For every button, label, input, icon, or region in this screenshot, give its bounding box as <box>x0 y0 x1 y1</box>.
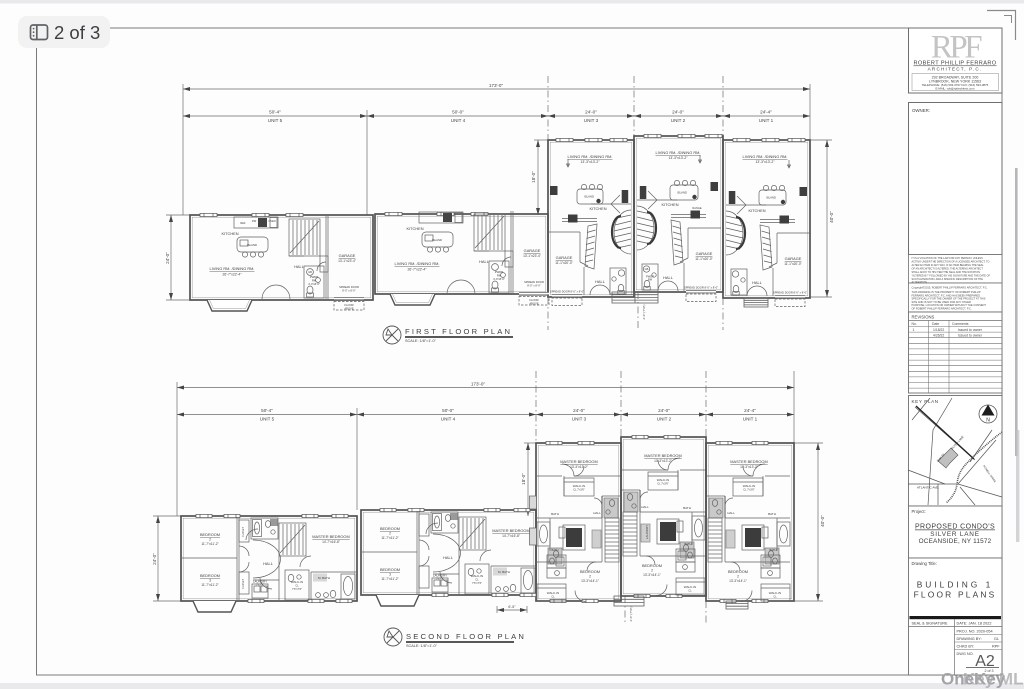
svg-text:WALK-IN: WALK-IN <box>657 478 669 482</box>
corner crop mark inner top-right <box>1004 16 1012 24</box>
svg-text:GARAGE: GARAGE <box>696 251 713 256</box>
svg-text:3: 3 <box>389 573 391 577</box>
svg-text:MASTER BEDROOM: MASTER BEDROOM <box>644 453 681 458</box>
svg-text:UNIT 5: UNIT 5 <box>268 118 283 123</box>
svg-text:11'-7"x11'-2": 11'-7"x11'-2" <box>381 536 398 540</box>
svg-text:ABOVE: ABOVE <box>529 302 538 306</box>
svg-text:4'-0"x8'-6": 4'-0"x8'-6" <box>308 282 320 286</box>
overall dim line 173'-0" <box>183 88 810 90</box>
svg-text:BEDROOM: BEDROOM <box>728 569 748 574</box>
key plan building footprint <box>938 448 958 468</box>
svg-text:M. BATH: M. BATH <box>318 576 330 580</box>
svg-text:8'-0" x 8'-0": 8'-0" x 8'-0" <box>342 289 356 293</box>
svg-text:MASTER BEDROOM: MASTER BEDROOM <box>492 528 529 533</box>
bath top-center <box>251 518 278 539</box>
left vertical dim 24'-0" second floor <box>153 516 181 601</box>
svg-text:GB: GB <box>308 270 312 274</box>
left vertical dim 24'-0" first floor <box>166 215 190 300</box>
unit 3 island <box>577 184 603 204</box>
svg-text:11'-7"x11'-2": 11'-7"x11'-2" <box>201 583 218 587</box>
svg-text:24'-0": 24'-0" <box>165 252 170 264</box>
title block: copyright note <box>909 283 1003 312</box>
svg-text:UNIT 5: UNIT 5 <box>260 417 275 422</box>
master bedroom wall <box>622 469 668 471</box>
svg-text:FLOOR PLANS: FLOOR PLANS <box>914 590 997 600</box>
svg-text:KEY PLAN: KEY PLAN <box>912 399 939 404</box>
garage wall <box>325 216 327 299</box>
svg-text:CLOSET: CLOSET <box>242 527 245 537</box>
svg-text:HALL: HALL <box>443 555 454 560</box>
svg-text:SPREAD DOOR 8'-0" x 8'-0": SPREAD DOOR 8'-0" x 8'-0" <box>773 291 807 295</box>
svg-text:RM: RM <box>312 279 317 283</box>
svg-text:14'-7"x16'-8": 14'-7"x16'-8" <box>322 540 340 544</box>
garage door opening <box>686 290 716 293</box>
svg-text:SEAL & SIGNATURE: SEAL & SIGNATURE <box>912 622 949 626</box>
svg-text:7'x7'7": 7'x7'7" <box>256 583 264 587</box>
unit 1 labels <box>743 154 808 295</box>
svg-text:26'-7"x22'-4": 26'-7"x22'-4" <box>408 268 428 272</box>
svg-text:3: 3 <box>209 579 211 583</box>
key plan main road thick <box>916 406 974 459</box>
floor above dashed apron <box>334 302 364 311</box>
svg-text:13'-3"x13'-2": 13'-3"x13'-2" <box>654 459 672 463</box>
sheet border bottom <box>36 674 1002 676</box>
interior door arc <box>317 262 326 271</box>
watermark OneKey MLS <box>941 670 1024 689</box>
svg-text:CL: CL <box>551 595 555 599</box>
svg-text:13'-3"x13'-2": 13'-3"x13'-2" <box>740 465 758 469</box>
svg-text:40'-0": 40'-0" <box>820 515 825 527</box>
bath middle <box>285 570 309 600</box>
svg-text:24'-4": 24'-4" <box>744 408 756 413</box>
svg-text:ISLAND: ISLAND <box>677 191 687 195</box>
svg-text:13'-3"x13'-2": 13'-3"x13'-2" <box>756 160 776 164</box>
svg-text:WALK-IN: WALK-IN <box>769 591 781 595</box>
svg-text:RANGE: RANGE <box>692 206 701 210</box>
svg-text:GL: GL <box>994 637 999 641</box>
svg-text:LAUNDRY: LAUNDRY <box>645 525 649 539</box>
svg-text:13'-1"x23'-4": 13'-1"x23'-4" <box>523 254 541 258</box>
dim labels first floor <box>268 83 774 123</box>
svg-text:BEDROOM: BEDROOM <box>380 567 400 572</box>
right vertical dim 40'-0" second floor <box>794 443 823 601</box>
svg-text:13'-3"x14'-1": 13'-3"x14'-1" <box>643 573 661 577</box>
svg-text:SECOND FLOOR PLAN: SECOND FLOOR PLAN <box>406 632 526 641</box>
svg-text:2 of 3: 2 of 3 <box>54 22 100 43</box>
svg-text:ISLAND: ISLAND <box>766 196 776 200</box>
photo top edge strip <box>0 0 1024 4</box>
unit 3 2F labels <box>547 459 601 599</box>
second floor porches <box>614 596 748 609</box>
svg-text:173'-0": 173'-0" <box>471 382 486 387</box>
svg-text:RPF: RPF <box>992 645 1000 649</box>
svg-text:HALL: HALL <box>593 511 601 515</box>
svg-text:LIVING RM. /DINING RM.: LIVING RM. /DINING RM. <box>395 261 440 266</box>
svg-text:KITCHEN: KITCHEN <box>748 208 765 213</box>
svg-text:HALL: HALL <box>263 561 274 566</box>
thick separator bar <box>910 616 1002 619</box>
long unit separation dash lines first floor <box>548 76 723 330</box>
6'-5" dim below unit 4 <box>497 606 527 613</box>
svg-text:Project:: Project: <box>912 509 926 514</box>
svg-text:4'-0"x8'-6": 4'-0"x8'-6" <box>493 277 505 281</box>
svg-text:50'-4": 50'-4" <box>269 110 281 115</box>
svg-text:UNIT 1: UNIT 1 <box>759 118 774 123</box>
island unit5 <box>237 237 268 252</box>
unit 3 2F mirrored <box>537 464 620 602</box>
extension verticals <box>182 84 184 215</box>
master bath right-bottom <box>311 571 356 573</box>
stair left <box>623 512 637 556</box>
kitchen counter + range <box>671 217 706 219</box>
svg-text:11'-1"x20'-0": 11'-1"x20'-0" <box>695 257 713 261</box>
svg-text:OCEANSIDE, NY 11572: OCEANSIDE, NY 11572 <box>919 538 992 545</box>
unit 5 2F bay window <box>193 601 236 612</box>
svg-text:WALK-IN: WALK-IN <box>684 585 696 589</box>
svg-text:14'-7"x16'-8": 14'-7"x16'-8" <box>502 534 520 538</box>
svg-text:GB: GB <box>645 267 649 271</box>
svg-text:SPREAD DOOR: SPREAD DOOR <box>339 285 359 289</box>
svg-text:UNIT 3: UNIT 3 <box>584 118 599 123</box>
svg-text:6'-5": 6'-5" <box>508 605 516 609</box>
photo bottom edge strip <box>0 683 1024 689</box>
svg-text:11'-7"x11'-2": 11'-7"x11'-2" <box>201 542 218 546</box>
svg-text:LIVING RM. /DINING RM.: LIVING RM. /DINING RM. <box>656 150 701 155</box>
svg-text:WALK-IN: WALK-IN <box>573 484 585 488</box>
sheet border top <box>109 27 1002 29</box>
svg-text:18'-0": 18'-0" <box>521 473 526 485</box>
svg-text:1: 1 <box>913 328 915 332</box>
unit 5 outer wall <box>190 215 373 300</box>
unit 2 2F interior geometry <box>622 458 705 596</box>
unit 4 2F labels <box>380 526 530 585</box>
svg-text:REVISIONS: REVISIONS <box>912 315 935 320</box>
svg-text:2'-0" (TYP.): 2'-0" (TYP.) <box>642 304 646 319</box>
key plan roads <box>908 398 1002 505</box>
unit 3 2F left wall fixtures <box>530 496 537 545</box>
unit 4 2F outer wall <box>361 510 536 595</box>
svg-text:GARAGE: GARAGE <box>524 248 541 253</box>
svg-text:HALL: HALL <box>752 280 763 285</box>
svg-text:Key MLS: Key MLS <box>963 670 1024 689</box>
svg-text:BATH: BATH <box>552 548 559 552</box>
photo count chip <box>18 16 110 48</box>
title block: drawing title box <box>909 558 1003 675</box>
svg-text:4/26/22: 4/26/22 <box>933 334 944 338</box>
unit 4 outer wall <box>375 214 548 294</box>
svg-text:ISLAND: ISLAND <box>584 195 594 199</box>
svg-text:50'-0": 50'-0" <box>452 110 464 115</box>
closet parallelogram <box>671 220 683 265</box>
svg-text:2'-0" (TYP.): 2'-0" (TYP.) <box>629 606 633 621</box>
svg-text:BATH: BATH <box>685 542 692 546</box>
svg-text:18'-0": 18'-0" <box>531 171 536 183</box>
svg-text:Issued to owner: Issued to owner <box>958 334 983 338</box>
unit 2 2F outer wall <box>621 437 706 596</box>
svg-text:HALL: HALL <box>727 511 735 515</box>
svg-text:FLOOR: FLOOR <box>344 303 353 307</box>
svg-text:WALK-IN: WALK-IN <box>291 580 303 584</box>
unit 2 island <box>670 180 698 200</box>
middle band walls <box>639 490 641 556</box>
svg-text:2: 2 <box>589 575 591 579</box>
svg-text:M. BATH: M. BATH <box>498 570 510 574</box>
stair <box>279 523 306 556</box>
svg-text:GARAGE: GARAGE <box>556 255 573 260</box>
svg-text:HALL: HALL <box>663 275 674 280</box>
title block: violation note <box>909 255 1003 285</box>
extra interior walls <box>677 470 679 490</box>
svg-text:BATH: BATH <box>768 512 776 516</box>
title block: architect logo box <box>909 28 1003 93</box>
svg-text:2: 2 <box>651 569 653 573</box>
svg-text:WALK-IN: WALK-IN <box>471 574 483 578</box>
svg-text:SILVER LANE: SILVER LANE <box>930 531 980 538</box>
svg-text:BEDROOM: BEDROOM <box>380 526 400 531</box>
svg-text:Issued to owner: Issued to owner <box>958 328 983 332</box>
svg-text:24'-0": 24'-0" <box>573 408 585 413</box>
svg-text:MASTER BEDROOM: MASTER BEDROOM <box>312 534 349 539</box>
svg-text:WALK-IN: WALK-IN <box>547 591 559 595</box>
key plan compass <box>979 405 997 423</box>
svg-text:DATE: JAN. 18 2022: DATE: JAN. 18 2022 <box>957 622 992 626</box>
svg-text:UNIT 1: UNIT 1 <box>743 417 758 422</box>
bottom band walls <box>640 555 705 557</box>
svg-text:Copyright©2015, ROBERT PHILLIP: Copyright©2015, ROBERT PHILLIP FERRARO A… <box>912 286 988 290</box>
kitchen counter unit5 <box>234 217 278 228</box>
second floor window marks <box>196 435 768 602</box>
right vertical dim 40'-0" first floor <box>810 140 832 297</box>
unit 5 bay window <box>207 300 252 311</box>
tub shower + bath bottom <box>676 549 695 562</box>
svg-text:SPREAD DOOR 8'-0" x 8'-0": SPREAD DOOR 8'-0" x 8'-0" <box>550 290 584 294</box>
svg-text:CL 7'x3'6": CL 7'x3'6" <box>657 482 669 486</box>
svg-text:2: 2 <box>389 532 391 536</box>
unit 5 2F labels <box>200 527 350 591</box>
svg-text:7'6"x7'6": 7'6"x7'6" <box>472 581 482 585</box>
svg-text:SCALE: 1/8"=1'-0": SCALE: 1/8"=1'-0" <box>406 644 438 648</box>
unit 2 labels <box>645 150 718 290</box>
garage walls <box>687 228 689 258</box>
door arcs <box>646 556 655 565</box>
vestibule arcs <box>239 546 249 556</box>
bedroom dividing walls <box>236 517 238 600</box>
svg-text:Drawing Title:: Drawing Title: <box>912 561 937 566</box>
svg-text:OVEN: OVEN <box>268 219 275 223</box>
svg-text:PROPOSED CONDO'S: PROPOSED CONDO'S <box>915 524 995 531</box>
unit 1 island <box>759 185 786 205</box>
svg-text:ARCHITECT, P.C.: ARCHITECT, P.C. <box>928 67 983 72</box>
unit 5 2F outer wall <box>181 516 357 601</box>
corner crop mark outer top-right <box>987 11 1016 41</box>
svg-text:GARAGE: GARAGE <box>339 253 356 258</box>
svg-text:E-MAIL: rob@rpfarchitect.com: E-MAIL: rob@rpfarchitect.com <box>936 87 976 91</box>
svg-text:No.: No. <box>912 322 917 326</box>
svg-text:13'-3"x14'-1": 13'-3"x14'-1" <box>729 579 747 583</box>
svg-text:40'-0": 40'-0" <box>829 211 834 223</box>
svg-text:CL: CL <box>295 584 299 588</box>
svg-text:1/18/22: 1/18/22 <box>933 328 944 332</box>
svg-text:PROJ. NO. 2020-054: PROJ. NO. 2020-054 <box>957 630 993 634</box>
bath tile left <box>624 492 638 512</box>
svg-text:2: 2 <box>209 538 211 542</box>
svg-text:KITCHEN: KITCHEN <box>661 202 678 207</box>
svg-text:OF ROBERT PHILLIP FERRARO ARCH: OF ROBERT PHILLIP FERRARO ARCHITECT, P.C… <box>912 307 972 311</box>
svg-text:OWNER:: OWNER: <box>912 108 930 113</box>
svg-text:LIVING RM. /DINING RM.: LIVING RM. /DINING RM. <box>568 154 613 159</box>
svg-text:DWG NO.: DWG NO. <box>957 652 974 656</box>
svg-text:BUILDING 1: BUILDING 1 <box>917 580 994 590</box>
svg-text:BATH: BATH <box>683 506 691 510</box>
svg-text:Date: Date <box>932 322 939 326</box>
walk-in closet <box>648 472 678 490</box>
svg-text:Comments: Comments <box>952 322 969 326</box>
unit 3 labels <box>550 154 613 294</box>
svg-text:CL 7'x3'6": CL 7'x3'6" <box>743 488 755 492</box>
key plan creek hatched <box>946 432 1002 503</box>
svg-text:13'-3"x13'-2": 13'-3"x13'-2" <box>570 465 588 469</box>
closets <box>239 520 249 542</box>
svg-text:CL: CL <box>475 578 479 582</box>
svg-text:50'-0": 50'-0" <box>442 408 454 413</box>
unit dim line <box>183 115 810 117</box>
svg-text:WALK-IN: WALK-IN <box>743 484 755 488</box>
unit 1 outer wall <box>723 140 810 298</box>
svg-text:HALL: HALL <box>479 259 490 264</box>
svg-text:BEDROOM: BEDROOM <box>642 563 662 568</box>
svg-text:HALL: HALL <box>595 279 606 284</box>
svg-text:GARAGE: GARAGE <box>785 256 802 261</box>
svg-text:ISLAND: ISLAND <box>432 238 442 242</box>
unit 1 2F reuse <box>707 464 790 602</box>
svg-text:FIRST FLOOR PLAN: FIRST FLOOR PLAN <box>405 327 512 336</box>
svg-text:24'-0": 24'-0" <box>585 110 597 115</box>
master door arc <box>300 556 311 567</box>
svg-text:CLOSET: CLOSET <box>242 579 245 589</box>
unit 3 2F outer wall <box>536 443 621 601</box>
svg-text:SCALE: 1/8"=1'-0": SCALE: 1/8"=1'-0" <box>405 339 437 343</box>
svg-text:N: N <box>986 418 990 424</box>
svg-text:SPREAD DOOR 8'-0" x 8'-0": SPREAD DOOR 8'-0" x 8'-0" <box>684 286 718 290</box>
svg-text:8'-0" x 8'-0": 8'-0" x 8'-0" <box>527 284 541 288</box>
first floor porches <box>612 292 768 307</box>
plan titles <box>383 326 513 344</box>
svg-text:ABOVE: ABOVE <box>344 307 353 311</box>
svg-text:13'-3"x14'-1": 13'-3"x14'-1" <box>581 579 599 583</box>
svg-text:2: 2 <box>737 575 739 579</box>
sheet border left <box>36 46 38 675</box>
powder room unit5 <box>304 266 324 298</box>
unit 1 2F outer wall <box>706 443 794 601</box>
svg-text:13'-1"x23'-4": 13'-1"x23'-4" <box>338 259 356 263</box>
svg-text:KITCHEN: KITCHEN <box>406 226 423 231</box>
svg-text:11'-1"x20'-0": 11'-1"x20'-0" <box>784 262 802 266</box>
svg-text:ISLAND: ISLAND <box>247 243 257 247</box>
dim arrows first floor <box>183 87 810 118</box>
unit 2 interior geometry <box>637 155 721 302</box>
svg-text:DRAWING BY:: DRAWING BY: <box>957 637 982 641</box>
svg-text:SPREAD DOOR: SPREAD DOOR <box>524 280 544 284</box>
tub right <box>692 516 705 540</box>
unit 3 interior mirrored <box>547 159 631 306</box>
curved stair <box>637 206 654 250</box>
svg-text:11'-7"x11'-2": 11'-7"x11'-2" <box>381 577 398 581</box>
unit 1 interior reuse <box>726 160 810 307</box>
svg-text:RM: RM <box>648 278 652 282</box>
title block: project box <box>909 506 1003 558</box>
shaft dark <box>660 522 676 541</box>
svg-text:24'-0": 24'-0" <box>672 110 684 115</box>
svg-text:UNIT 2: UNIT 2 <box>657 417 672 422</box>
title block: key plan <box>908 396 1002 507</box>
title block: revisions table <box>909 312 1003 393</box>
svg-text:FLOOR: FLOOR <box>529 298 538 302</box>
svg-text:50'-4": 50'-4" <box>261 408 273 413</box>
svg-text:RM: RM <box>497 274 502 278</box>
unit 2 outer wall <box>634 136 723 292</box>
laundry <box>252 584 268 598</box>
sheet border right <box>1001 28 1003 675</box>
svg-text:HALL: HALL <box>294 264 305 269</box>
unit 4 bay window <box>390 294 435 305</box>
svg-text:KITCHEN: KITCHEN <box>221 231 238 236</box>
svg-text:UNIT 4: UNIT 4 <box>451 118 466 123</box>
svg-text:24'-0": 24'-0" <box>658 408 670 413</box>
svg-text:UNIT 4: UNIT 4 <box>441 417 456 422</box>
svg-text:CL 7'x3'6": CL 7'x3'6" <box>573 488 585 492</box>
step vertical dim 18'-0" first floor <box>534 140 548 215</box>
svg-text:LIVING RM. /DINING RM.: LIVING RM. /DINING RM. <box>743 154 788 159</box>
unit 4 2F interior reuse <box>362 511 536 594</box>
right edge gray bar <box>1015 168 1018 456</box>
svg-text:BEDROOM: BEDROOM <box>200 573 220 578</box>
svg-text:KITCHEN: KITCHEN <box>589 206 606 211</box>
svg-text:CL: CL <box>773 595 777 599</box>
arrows <box>699 155 702 163</box>
svg-text:MASTER BEDROOM: MASTER BEDROOM <box>730 459 767 464</box>
unit 5 labels <box>210 219 359 311</box>
front door arcs <box>658 281 668 291</box>
stair unit5 <box>289 219 320 256</box>
unit 4 2F bay window <box>376 595 419 606</box>
step vertical dim 18'-0" second floor <box>524 443 536 516</box>
hall closet unit5 <box>320 256 328 272</box>
unit 4 interior reuse <box>419 211 549 305</box>
svg-text:CHKD BY:: CHKD BY: <box>957 645 975 649</box>
unit 4 labels <box>395 226 544 306</box>
svg-text:UNIT 3: UNIT 3 <box>572 417 587 422</box>
svg-text:24'-0": 24'-0" <box>152 553 157 565</box>
svg-text:ATLANTIC AVE.: ATLANTIC AVE. <box>917 486 939 490</box>
garage door opening unit5 <box>334 297 364 299</box>
first floor window marks <box>200 134 805 216</box>
svg-text:7'6"x7'6": 7'6"x7'6" <box>292 587 302 591</box>
front door arcs unit5 <box>262 285 276 299</box>
svg-text:LIVING RM. /DINING RM.: LIVING RM. /DINING RM. <box>210 266 255 271</box>
svg-text:7'x7'7": 7'x7'7" <box>436 577 444 581</box>
svg-text:BEDROOM: BEDROOM <box>200 532 220 537</box>
title block: owner box <box>909 103 1003 255</box>
powder room <box>642 264 658 290</box>
svg-text:BATH: BATH <box>770 548 777 552</box>
unit 1 2F labels <box>727 459 781 599</box>
svg-text:24'-4": 24'-4" <box>760 110 772 115</box>
hall walls <box>253 579 279 581</box>
svg-text:11'-1"x20'-0": 11'-1"x20'-0" <box>555 261 573 265</box>
svg-text:13'-3"x13'-2": 13'-3"x13'-2" <box>669 156 689 160</box>
svg-text:BATH: BATH <box>551 512 559 516</box>
svg-text:MASTER BEDROOM: MASTER BEDROOM <box>560 459 597 464</box>
